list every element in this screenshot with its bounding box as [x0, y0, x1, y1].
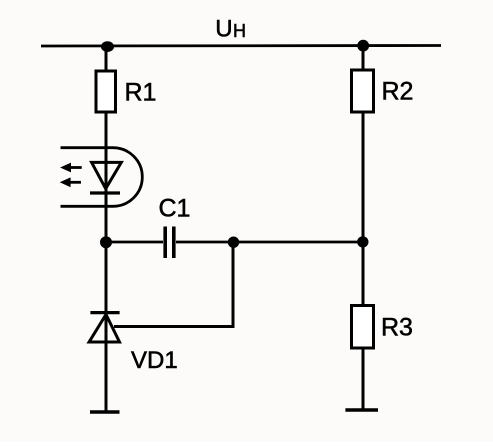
wire: left branch vertical (R1 through photodiode down to node A) — [105, 112, 108, 242]
photodiode triangle (anode) — [92, 162, 122, 188]
wire: VD1 gate connection (node B down and left to VD1) — [114, 242, 233, 327]
node: junction of left branch with top rail — [101, 41, 114, 52]
node: junction of wire with right branch — [357, 236, 368, 247]
svg-text:Н: Н — [233, 21, 246, 41]
resistor R2 — [352, 70, 374, 112]
node B: junction of C1 wire and VD1 gate wire — [228, 237, 239, 248]
diode VD1 triangle (points up) — [89, 315, 119, 343]
wire: right branch vertical (rail to R2) — [362, 46, 365, 71]
svg-text:R2: R2 — [382, 78, 414, 106]
ground (right branch) — [345, 408, 378, 411]
svg-text:R1: R1 — [125, 79, 157, 107]
resistor R3 — [352, 306, 374, 349]
wire: R3 to ground — [362, 348, 365, 410]
node: junction of right branch with top rail — [357, 40, 369, 52]
capacitor C1 left plate — [163, 227, 167, 259]
light arrow 1 (upper) — [60, 163, 82, 173]
svg-text:U: U — [215, 16, 232, 43]
photodiode cathode bar — [90, 191, 120, 194]
wire: node A to C1 left plate — [106, 241, 163, 244]
wire: left branch vertical (rail to R1) — [105, 46, 108, 72]
svg-text:R3: R3 — [381, 314, 413, 342]
label Uн — [215, 16, 246, 43]
wire: top supply rail Uн — [41, 44, 441, 47]
wire: node A down through VD1 to ground — [105, 242, 108, 412]
ground (left branch) — [90, 410, 120, 413]
diode VD1 cathode bar — [90, 311, 119, 314]
wire: C1 right plate to right branch — [176, 241, 363, 244]
light arrow 2 (lower) — [60, 177, 81, 187]
resistor R1 — [96, 71, 116, 112]
capacitor C1 right plate — [172, 227, 176, 259]
svg-text:C1: C1 — [159, 195, 191, 223]
wire: right branch vertical (R2 to R3) — [362, 112, 365, 306]
node A: junction left branch / C1 — [100, 236, 112, 248]
photodiode housing (D-shaped case) — [61, 148, 143, 207]
svg-text:VD1: VD1 — [131, 347, 178, 374]
